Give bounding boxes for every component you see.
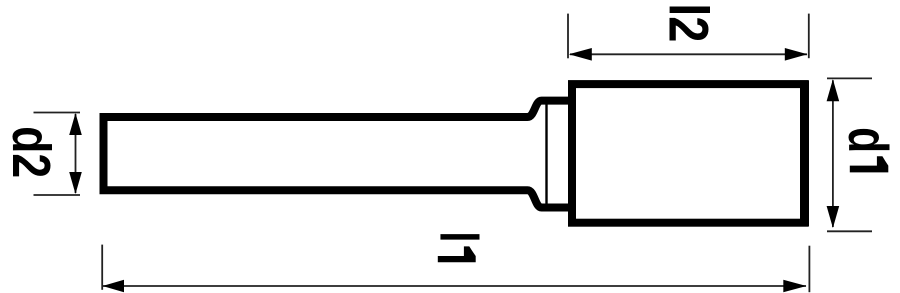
dimension d1 extension line top (827, 77, 872, 79)
dimension l1 arrow left (103, 280, 125, 292)
dimension d1 line (832, 80, 834, 227)
burr shank and flared neck outline (104, 101, 573, 208)
dimension l1 extension line right (808, 246, 810, 293)
dimension l2 extension line left (567, 14, 569, 59)
head right face edge (thicker) (800, 80, 809, 226)
svg-text:d2: d2 (1, 126, 61, 178)
dimension d2 line (75, 114, 77, 193)
dimension d1 extension line bottom (827, 230, 872, 232)
label d1 digit glyph (850, 156, 889, 172)
dimension l2 arrow left (569, 48, 592, 61)
dimension d1 arrow bottom (827, 206, 840, 228)
dimension l2 extension line right (808, 14, 810, 59)
dimension d1 arrow top (827, 79, 840, 101)
dimension l2 arrow right (785, 48, 808, 61)
dimension d2 extension line top (34, 112, 81, 114)
dimension d2 extension line bottom (34, 194, 81, 196)
dimension d2 arrow bottom (69, 172, 82, 194)
dimension l1 extension line left (101, 245, 103, 290)
neck face line (545, 99, 547, 209)
label l1 digit glyph (438, 246, 476, 262)
dimension d2 arrow top (69, 113, 82, 135)
cylindrical head rectangle (572, 84, 805, 223)
dimension l1 arrow right (783, 280, 806, 292)
dimension l1 line (103, 285, 806, 287)
svg-text:l2: l2 (657, 3, 720, 42)
dimension l2 line (570, 53, 807, 55)
